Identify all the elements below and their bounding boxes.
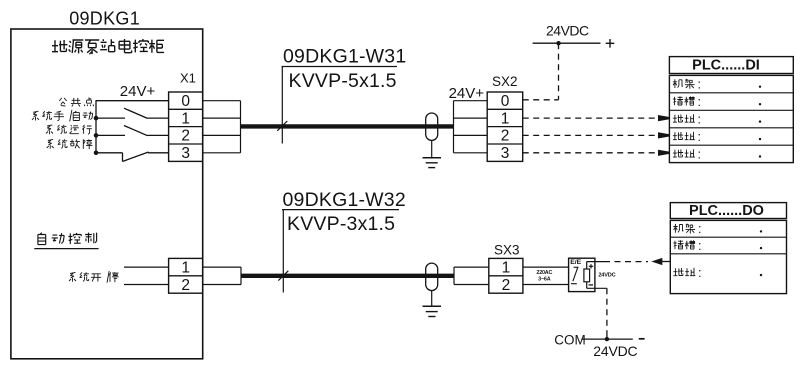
wire SX3:2 to E/E xyxy=(523,284,569,286)
label 系统开/停 xyxy=(69,271,119,283)
PLC DI row 机架0 xyxy=(673,79,695,89)
terminal block SX3 body xyxy=(489,258,523,293)
fuse F1 xyxy=(584,269,590,282)
wire (dashed) SX2:3 to PLC DI xyxy=(523,152,657,154)
junction node row2 xyxy=(94,133,99,138)
wire fanout junction vertical (SX2 side) xyxy=(453,101,455,153)
wire fanout junction vertical (lower X1 side) xyxy=(240,267,242,284)
svg-text:24VDC: 24VDC xyxy=(593,343,637,359)
svg-text:2: 2 xyxy=(501,128,510,145)
svg-text:2: 2 xyxy=(502,277,511,294)
ground (W32 shield) xyxy=(431,291,433,306)
internal switch contact xyxy=(573,268,578,282)
cabinet 09DKG1 enclosure box xyxy=(11,29,203,359)
PLC DO row 机架0 xyxy=(673,224,695,234)
wire + output xyxy=(586,262,588,269)
wire lower terminal 2 stub xyxy=(203,284,241,286)
label 公共点 xyxy=(59,97,93,106)
PLC DO row 插槽1 xyxy=(673,240,695,249)
svg-text:SX3: SX3 xyxy=(494,242,520,257)
wire (dashed) + output to PLC DO xyxy=(604,261,648,263)
wire common bus vertical xyxy=(95,101,97,153)
wire X1:2 stub xyxy=(203,134,241,136)
PLC DO row 地址2 xyxy=(673,268,695,276)
wire SX2:0 stub xyxy=(454,100,488,102)
svg-text:24VDC: 24VDC xyxy=(546,22,589,38)
wire COM rail xyxy=(581,338,633,340)
wire lower terminal 1 stub xyxy=(203,266,241,268)
plus terminal xyxy=(589,265,593,267)
wire SX2:3 stub xyxy=(454,152,488,154)
junction node on 24VDC rail xyxy=(556,41,560,45)
power module U1 (E/E) box xyxy=(569,258,595,291)
junction node row1 xyxy=(94,116,99,121)
svg-text:COM: COM xyxy=(554,332,586,347)
wire 公共点 to X1:0 xyxy=(96,100,169,102)
svg-text:KVVP-3x1.5: KVVP-3x1.5 xyxy=(287,213,395,235)
switch contact S3 (系统故障) xyxy=(96,152,123,154)
terminal block X1 lower body xyxy=(169,258,203,293)
svg-text:SX2: SX2 xyxy=(492,74,518,89)
wire X1:0 stub xyxy=(203,100,241,102)
svg-text:PLC......DI: PLC......DI xyxy=(692,58,760,74)
arrow from PLC DO output xyxy=(662,261,670,263)
junction node row3 xyxy=(94,151,99,156)
wire SX3:1 stub xyxy=(454,266,489,268)
label 系统故障 xyxy=(47,139,93,149)
cable tick mark W31 xyxy=(277,121,287,131)
cable W31 shield symbol (capsule) xyxy=(426,113,438,140)
svg-text::: : xyxy=(698,112,701,126)
svg-text:24VDC: 24VDC xyxy=(598,273,615,279)
wire X1:1 stub xyxy=(203,117,241,119)
PLC DI table header xyxy=(669,57,793,74)
wire (dashed) - output down to COM xyxy=(606,288,608,331)
wire to terminal 2 xyxy=(124,284,169,286)
wire X1:3 stub xyxy=(203,152,241,154)
wire 系统开/停 to terminal 1 xyxy=(124,266,169,268)
label 自动控制 (underlined) xyxy=(38,233,97,245)
wire SX3:1 to E/E xyxy=(523,266,569,268)
cable W32 shield symbol (capsule) xyxy=(426,263,438,290)
PLC DI table body xyxy=(669,75,793,162)
svg-text:2: 2 xyxy=(181,277,190,294)
wire fanout junction vertical (X1 side) xyxy=(240,101,242,153)
PLC DI row 地址2 xyxy=(673,114,695,122)
wire SX2:1 stub xyxy=(454,117,488,119)
svg-text:09DKG1: 09DKG1 xyxy=(69,9,140,29)
plus sign xyxy=(606,42,615,44)
leader line for W31 label xyxy=(282,66,398,68)
svg-text::: : xyxy=(698,266,701,280)
cabinet name label 地源泵站电控柜 xyxy=(52,39,164,54)
svg-text:3~6A: 3~6A xyxy=(538,277,551,283)
wire (dashed) 24VDC to SX2:0 xyxy=(558,43,560,100)
PLC DI row 插槽1 xyxy=(673,96,695,105)
svg-text:1: 1 xyxy=(181,110,190,127)
svg-text:2: 2 xyxy=(181,128,190,145)
PLC DI row 地址4 xyxy=(673,149,695,157)
svg-text:3: 3 xyxy=(501,145,510,162)
leader line for W32 label xyxy=(282,209,399,211)
label 系统运行 xyxy=(46,125,92,135)
minus sign xyxy=(639,338,645,340)
PLC DI row 地址3 xyxy=(673,132,695,140)
terminal block X1 body xyxy=(169,92,203,161)
svg-text:0: 0 xyxy=(501,93,510,110)
svg-text::: : xyxy=(698,95,701,109)
wire - output xyxy=(586,282,588,289)
wire fanout junction vertical (SX3 side) xyxy=(453,267,455,284)
svg-text::: : xyxy=(698,222,701,236)
minus terminal xyxy=(589,284,593,286)
switch contact S2 (系统运行) xyxy=(96,134,125,136)
svg-text:1: 1 xyxy=(501,110,510,127)
cable W31 core (thick) xyxy=(241,124,454,128)
svg-text:PLC......DO: PLC......DO xyxy=(689,203,764,219)
svg-text:3: 3 xyxy=(181,145,190,162)
svg-text:24V+: 24V+ xyxy=(120,83,156,100)
svg-text:KVVP-5x1.5: KVVP-5x1.5 xyxy=(289,70,397,92)
terminal block SX2 body xyxy=(487,92,523,161)
wire SX3:2 stub xyxy=(454,284,489,286)
svg-text:09DKG1-W31: 09DKG1-W31 xyxy=(283,45,406,67)
svg-text::: : xyxy=(698,239,701,253)
svg-text:1: 1 xyxy=(502,259,511,276)
svg-text::: : xyxy=(698,78,701,92)
svg-text::: : xyxy=(698,147,701,161)
svg-text::: : xyxy=(698,130,701,144)
svg-text:24V+: 24V+ xyxy=(449,85,485,102)
ground (W31 shield) xyxy=(431,140,433,157)
wire (dashed) SX2:2 to PLC DI xyxy=(523,134,657,136)
svg-text:1: 1 xyxy=(181,259,190,276)
cable tick mark W32 xyxy=(278,271,288,281)
wire SX2:2 stub xyxy=(454,134,488,136)
cable W32 core (thick) xyxy=(241,274,454,278)
junction node on COM rail xyxy=(605,337,609,341)
wire (dashed) SX2:1 to PLC DI xyxy=(523,117,657,119)
svg-text:E/E: E/E xyxy=(570,259,581,266)
PLC DO table header xyxy=(670,203,786,219)
svg-text:0: 0 xyxy=(181,93,190,110)
svg-text:X1: X1 xyxy=(180,71,196,86)
label 系统手/自动 xyxy=(32,110,93,122)
PLC DO table body xyxy=(670,220,786,293)
svg-text:09DKG1-W32: 09DKG1-W32 xyxy=(283,189,406,211)
svg-text:220AC: 220AC xyxy=(536,270,552,276)
wire 24VDC supply rail xyxy=(533,42,601,44)
switch contact S1 (系统手/自动) xyxy=(96,117,125,119)
